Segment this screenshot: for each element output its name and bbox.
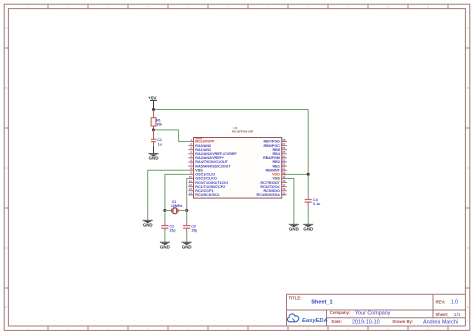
svg-text:16: 16 [282,187,285,191]
op-amp U1 PIC16F876A-I/SP body [194,138,282,199]
X1 value labels [171,200,183,208]
svg-text:12: 12 [189,183,192,187]
svg-text:15p: 15p [191,229,198,233]
svg-text:18: 18 [282,179,285,183]
svg-text:Your Company: Your Company [355,310,391,316]
title block [287,294,466,326]
C1 value labels [157,138,162,146]
wire: node to MCLR pin 1 [154,130,189,142]
ground (C4) [303,224,313,231]
svg-text:TITLE:: TITLE: [289,296,302,301]
wire: VDD pin 20 to +5V node [287,173,308,175]
wire: VSS pin 19 to ground [287,178,294,224]
wire: VSS pin 8 to ground [148,170,189,220]
U1 pin stubs (pins 1-28) [188,142,287,195]
svg-text:17: 17 [282,183,285,187]
svg-text:C: C [5,166,7,170]
svg-text:28: 28 [282,138,285,142]
svg-text:25: 25 [282,150,285,154]
svg-text:GND: GND [182,244,192,249]
U1 pin numbers 1-14 (left) [189,138,193,195]
wire: crystal right to C3 [186,211,188,223]
svg-text:RC4/SDI/SDA: RC4/SDI/SDA [257,193,281,197]
svg-text:19: 19 [282,175,285,179]
U1 pin numbers 28-15 (right) [282,138,285,195]
svg-text:Company:: Company: [330,310,350,315]
wire: node to C4 [307,174,309,196]
svg-text:B: B [5,86,7,90]
svg-text:1.0: 1.0 [451,300,458,306]
svg-text:15: 15 [282,191,285,195]
ground (C1) [148,154,158,161]
svg-text:26: 26 [282,146,285,150]
svg-text:23: 23 [282,158,285,162]
svg-text:GND: GND [143,222,153,227]
svg-text:RC3/SCK/SCL: RC3/SCK/SCL [195,193,220,197]
U1 right pin name labels [257,140,281,197]
svg-text:10MHz: 10MHz [171,204,183,208]
svg-text:D: D [5,246,7,250]
svg-text:D: D [467,246,469,250]
svg-text:A: A [5,26,7,30]
svg-text:GND: GND [303,227,313,232]
svg-text:10: 10 [189,175,192,179]
C2 value labels [169,224,176,232]
svg-text:22: 22 [282,163,285,167]
capacitor C3 [183,223,190,243]
svg-text:C: C [467,166,469,170]
wire: crystal left to C2 [164,211,166,223]
svg-text:REV:: REV: [436,300,446,305]
svg-text:E: E [5,305,7,309]
junction: crystal right node [185,209,188,212]
C3 value labels [191,224,198,232]
svg-text:A: A [467,26,469,30]
svg-text:15p: 15p [169,229,176,233]
svg-text:Sheet:: Sheet: [436,312,449,317]
U1 reference designator [232,126,254,133]
svg-text:0.1u: 0.1u [313,202,320,206]
junction: crystal left node [163,209,166,212]
junction: R1 / C1 / MCLR node [152,128,155,131]
wire: OSC1 pin 9 to crystal [165,174,188,210]
wire: +5V rail to VDD node [154,110,309,175]
svg-text:10k: 10k [156,123,162,127]
crystal X1 [165,208,187,214]
wire: OSC2 pin 10 to crystal [187,178,189,210]
svg-text:Andrea Marchi: Andrea Marchi [423,319,458,325]
svg-text:11: 11 [189,179,192,183]
pin 20 highlight dot [283,173,285,175]
svg-text:21: 21 [282,167,285,171]
junction: VDD / C4 node [307,173,310,176]
C4 value labels [313,198,320,206]
capacitor C4 [305,197,312,225]
ground (C2) [160,242,170,249]
svg-text:+5V: +5V [148,95,157,100]
capacitor C1 [151,130,156,154]
svg-text:GND: GND [289,227,299,232]
svg-text:GND: GND [149,156,159,161]
power flag +5V [148,95,157,109]
svg-text:PIC16F876A-I/SP: PIC16F876A-I/SP [232,130,254,134]
ground (VSS right) [289,224,299,231]
svg-text:EasyEDA: EasyEDA [302,318,328,324]
svg-text:27: 27 [282,142,285,146]
ground (VSS left) [143,220,153,227]
svg-text:14: 14 [189,191,192,195]
EasyEDA logo [287,314,327,324]
resistor R1 [151,110,156,130]
svg-text:U1: U1 [234,126,238,130]
R1 value labels [156,118,162,126]
svg-text:24: 24 [282,154,285,158]
svg-text:Sheet_1: Sheet_1 [311,300,332,306]
U1 left pin name labels [195,139,237,197]
svg-text:2019-10-10: 2019-10-10 [352,319,380,325]
svg-text:Drawn By:: Drawn By: [393,319,414,324]
svg-text:1u: 1u [158,142,162,146]
svg-text:B: B [467,86,469,90]
svg-text:13: 13 [189,187,192,191]
junction: +5V / R1 top [152,108,155,111]
svg-text:GND: GND [160,244,170,249]
svg-text:E: E [467,305,469,309]
svg-text:1/1: 1/1 [454,312,461,318]
svg-text:Date:: Date: [332,319,342,324]
capacitor C2 [161,223,168,243]
ground (C3) [182,242,192,249]
